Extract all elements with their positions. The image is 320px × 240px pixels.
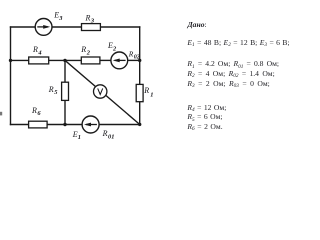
svg-text:1: 1 bbox=[78, 134, 81, 141]
svg-text:2: 2 bbox=[112, 45, 117, 52]
voltmeter V bbox=[94, 85, 107, 98]
svg-text:01: 01 bbox=[108, 134, 114, 141]
label R1 bbox=[143, 86, 153, 98]
wire E3 to R3 bbox=[52, 26, 82, 28]
resistor R6 bbox=[29, 121, 47, 128]
svg-text:2: 2 bbox=[86, 49, 91, 56]
node A junction dot bbox=[9, 59, 12, 62]
wire R5 to bottom node C bbox=[64, 100, 66, 124]
svg-text:4: 4 bbox=[37, 49, 41, 56]
node E2-right junction dot bbox=[138, 59, 141, 62]
svg-text:R: R bbox=[102, 129, 108, 138]
label R02 bbox=[128, 50, 140, 61]
label E1 bbox=[72, 130, 81, 141]
wire R6 to node C bbox=[47, 124, 65, 126]
given data heading bbox=[188, 20, 207, 29]
node B junction dot bbox=[63, 59, 66, 62]
source E2 bbox=[111, 52, 128, 69]
wire node C to E1 bbox=[65, 124, 82, 126]
wire E1 to node D bbox=[99, 124, 140, 126]
wire right vertical lower bbox=[139, 102, 141, 125]
wire node A to R4 bbox=[11, 59, 29, 61]
label R5 bbox=[48, 85, 58, 96]
svg-text:6: 6 bbox=[37, 110, 41, 117]
wire diagonal node B to node D bbox=[65, 60, 140, 124]
source E1 bbox=[82, 116, 99, 133]
given data line R3 R03 bbox=[187, 79, 269, 88]
wire R3 to top-right corner bbox=[100, 26, 139, 28]
resistor R3 bbox=[82, 24, 101, 31]
wire E2 to right vertical bbox=[128, 59, 140, 61]
given data line R5 bbox=[187, 112, 222, 121]
given data line R1 R01 bbox=[187, 59, 279, 68]
label E3 bbox=[53, 11, 63, 22]
label R6 bbox=[31, 106, 41, 117]
wire right vertical upper bbox=[139, 27, 141, 84]
wire node B to R5 bbox=[64, 60, 66, 82]
source E3 bbox=[35, 19, 52, 36]
scan speck left edge bbox=[0, 112, 2, 116]
resistor R4 bbox=[29, 57, 49, 64]
node D junction dot bbox=[138, 123, 141, 126]
wire bottom-left to R6 bbox=[11, 124, 29, 126]
given data line E values bbox=[187, 38, 289, 47]
given data line R2 R02 bbox=[187, 69, 274, 78]
resistor R1 bbox=[136, 84, 143, 101]
svg-text:R: R bbox=[143, 86, 149, 95]
wire top-left to E3 bbox=[11, 26, 36, 28]
wire left vertical bbox=[10, 27, 12, 125]
svg-text:R: R bbox=[85, 13, 91, 22]
svg-text:R: R bbox=[80, 45, 86, 54]
svg-text:3: 3 bbox=[58, 15, 63, 22]
svg-text:5: 5 bbox=[54, 89, 58, 96]
svg-text:1: 1 bbox=[150, 91, 153, 98]
given data line R4 bbox=[187, 103, 226, 112]
label R4 bbox=[32, 45, 42, 56]
node C junction dot bbox=[63, 123, 66, 126]
resistor R5 bbox=[62, 82, 69, 100]
svg-text:R: R bbox=[31, 106, 37, 115]
resistor R2 bbox=[81, 57, 100, 64]
svg-text:R: R bbox=[48, 85, 54, 94]
svg-text:02: 02 bbox=[134, 55, 140, 61]
label R3 bbox=[85, 13, 95, 24]
given data line R6 bbox=[187, 122, 222, 131]
wire R2 to E2 bbox=[100, 59, 111, 61]
wire node B to R2 bbox=[65, 59, 81, 61]
label R2 bbox=[80, 45, 90, 56]
svg-text:R: R bbox=[32, 45, 38, 54]
wire R4 to node B bbox=[49, 59, 65, 61]
label R01 bbox=[102, 129, 115, 140]
label E2 bbox=[107, 41, 117, 52]
